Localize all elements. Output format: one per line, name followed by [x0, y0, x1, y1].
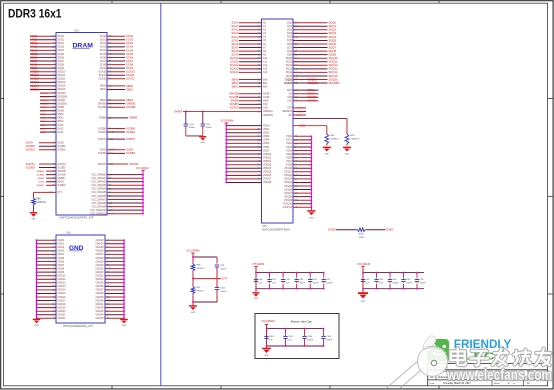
svg-text:U16: U16	[66, 232, 71, 235]
svg-text:SCA12: SCA12	[230, 63, 239, 67]
svg-text:VCC_DRAM7: VCC_DRAM7	[91, 198, 106, 201]
svg-text:VSSQ6: VSSQ6	[284, 188, 293, 191]
svg-text:SCA8: SCA8	[126, 62, 134, 66]
wire net SCK0	[107, 149, 125, 151]
wire GND pin L20	[37, 310, 57, 312]
svg-text:SBA0: SBA0	[40, 113, 46, 116]
watermark wrench head	[422, 334, 438, 352]
svg-text:CAS#: CAS#	[263, 96, 270, 99]
wire net SCK0	[39, 142, 56, 144]
svg-text:SDQ11: SDQ11	[58, 74, 66, 77]
wire net SDQ9	[293, 54, 328, 56]
watermark CJK char zi	[471, 351, 488, 365]
svg-text:VCC-DRAM: VCC-DRAM	[187, 250, 200, 253]
svg-text:SRSTB: SRSTB	[129, 162, 138, 166]
wire net SCA10	[107, 71, 125, 73]
wire VDDQ7 pin	[226, 178, 261, 180]
wire net SCSB0	[239, 103, 262, 105]
watermark CJK char shao	[514, 350, 531, 365]
svg-text:C101: C101	[269, 336, 275, 338]
IC U16 body	[56, 235, 105, 323]
svg-text:1uF: 1uF	[269, 340, 273, 342]
svg-text:SDQ13: SDQ13	[58, 81, 67, 84]
svg-text:SCKE0: SCKE0	[98, 131, 107, 134]
svg-text:SCA13: SCA13	[230, 67, 239, 71]
ground below right GND bus	[123, 318, 125, 321]
svg-text:SDQ9: SDQ9	[329, 53, 337, 57]
svg-text:SA12: SA12	[40, 127, 46, 130]
wire divider vertical top	[192, 253, 194, 262]
svg-text:SDQ8: SDQ8	[329, 49, 337, 53]
wire net SDQ12	[30, 78, 56, 80]
svg-text:GND25: GND25	[96, 246, 105, 249]
svg-text:SCA11: SCA11	[126, 73, 135, 77]
wire GND pin R13	[105, 285, 124, 287]
svg-text:A14: A14	[263, 71, 268, 74]
svg-text:SCA10: SCA10	[126, 70, 135, 74]
wire net SCSB0	[107, 128, 125, 130]
svg-text:1uF: 1uF	[272, 283, 276, 285]
svg-text:SRASB: SRASB	[126, 102, 135, 106]
wire net SA12	[40, 128, 56, 130]
ground below SVREF caps	[202, 135, 204, 138]
wire GND pin R20	[105, 310, 124, 312]
svg-text:R10: R10	[107, 269, 112, 271]
wire net SCKB0	[293, 96, 319, 98]
svg-text:SDQ3: SDQ3	[329, 31, 337, 35]
svg-text:SDQ8: SDQ8	[58, 63, 65, 66]
svg-text:SDQS1: SDQS1	[308, 77, 317, 81]
wire VSS2 pin	[293, 142, 311, 144]
svg-text:GND: GND	[34, 325, 39, 327]
wire net SCKE right of R100	[367, 229, 385, 231]
capacitor C100 100uF	[216, 286, 218, 289]
svg-text:SDQ9: SDQ9	[30, 66, 38, 70]
svg-text:R88: R88	[36, 198, 41, 200]
svg-text:SDQ7: SDQ7	[30, 59, 38, 63]
capacitor C96 100nF	[416, 273, 418, 278]
svg-text:SWEB: SWEB	[58, 177, 65, 180]
wire GND pin R21	[105, 314, 124, 316]
wire GND pin R15	[105, 292, 124, 294]
wire GND pin R14	[105, 289, 124, 291]
svg-text:SZQ0: SZQ0	[38, 182, 44, 184]
svg-text:SODT0: SODT0	[26, 162, 36, 166]
wire net SDQ6	[30, 57, 56, 59]
wire VDDQ1 pin	[226, 157, 261, 159]
svg-text:GND13: GND13	[58, 285, 67, 288]
wire net SBA0	[107, 85, 125, 87]
svg-text:SWEB: SWEB	[230, 99, 238, 103]
capacitor C93 1uF	[376, 273, 378, 278]
wire net SBA2	[107, 99, 125, 101]
wire net SDQ13	[293, 68, 328, 70]
ground below cap bank2	[362, 291, 364, 294]
watermark CJK char dian	[451, 348, 466, 365]
svg-text:VCC_DRAM11: VCC_DRAM11	[90, 213, 107, 216]
svg-text:GND: GND	[309, 217, 314, 219]
svg-text:U14: U14	[74, 29, 79, 32]
wire net SNC	[293, 114, 306, 116]
svg-text:SDQSB0: SDQSB0	[40, 96, 50, 98]
wire GND pin R2	[105, 246, 124, 248]
junction divider node	[192, 278, 194, 280]
wire VDDQ6 pin	[226, 174, 261, 176]
wire VCC_DRAM pin 0	[107, 174, 143, 176]
wire GND pin R16	[105, 296, 124, 298]
svg-text:100nF: 100nF	[326, 340, 333, 342]
wire net SCA14	[239, 71, 262, 73]
wire GND pin L18	[37, 303, 57, 305]
capacitor C94 100nF	[389, 273, 391, 278]
wire VDD4 pin	[226, 139, 261, 141]
wire net SDQ5	[293, 39, 328, 41]
svg-text:GND9: GND9	[58, 271, 65, 274]
wire VDDQ4 pin	[226, 167, 261, 169]
svg-text:VTT-DRAM: VTT-DRAM	[252, 263, 264, 266]
svg-text:SZQ0: SZQ0	[299, 125, 306, 128]
wire GND pin L14	[37, 289, 57, 291]
wire net SBA0	[239, 79, 262, 81]
svg-text:SCKB0: SCKB0	[308, 95, 317, 99]
wire net SVREF	[46, 184, 56, 186]
wire VDDQ2 pin	[226, 160, 261, 162]
wire net SDM1	[293, 89, 319, 91]
svg-text:SODT0: SODT0	[58, 163, 67, 166]
capacitor C87 1uF	[269, 273, 271, 278]
wire net SDQ4	[30, 49, 56, 51]
svg-text:100nF: 100nF	[419, 283, 426, 285]
wire GND pin L10	[37, 275, 57, 277]
svg-text:SODT0: SODT0	[297, 108, 305, 110]
wire net SRASB	[239, 93, 262, 95]
svg-text:GND: GND	[324, 153, 329, 155]
wire net SCA8	[239, 50, 262, 52]
svg-text:100nF: 100nF	[206, 127, 213, 129]
svg-text:Bottom side Cap: Bottom side Cap	[291, 320, 312, 324]
svg-text:C105: C105	[326, 336, 332, 338]
svg-text:100nF: 100nF	[326, 283, 333, 285]
wire net SBA1	[107, 88, 125, 90]
bottom side cap outline box	[255, 314, 339, 359]
wire net SCASB	[46, 174, 56, 176]
wire VDD7 pin	[226, 150, 261, 152]
svg-text:GND10: GND10	[58, 275, 67, 278]
wire net SCASB	[107, 106, 125, 108]
wire VDDQ3 pin	[226, 164, 261, 166]
svg-text:SCK0: SCK0	[100, 149, 107, 152]
svg-text:VREFDQ: VREFDQ	[263, 114, 273, 117]
svg-text:SCA0: SCA0	[126, 34, 134, 38]
ground below R99	[346, 146, 348, 149]
svg-text:SCA6: SCA6	[126, 55, 134, 59]
svg-text:SDQ10: SDQ10	[329, 56, 338, 60]
wire GND pin R0	[105, 239, 124, 241]
wire net SCKE0	[39, 149, 56, 151]
svg-text:SCA12: SCA12	[98, 78, 106, 81]
wire GND pin L2	[37, 246, 57, 248]
svg-text:SCKE0: SCKE0	[26, 148, 35, 152]
svg-text:SCK0: SCK0	[126, 148, 134, 152]
svg-text:RESET#: RESET#	[283, 110, 293, 113]
svg-text:SBA2: SBA2	[231, 84, 239, 88]
logo face dots	[443, 345, 446, 348]
wire net SCA13	[239, 68, 262, 70]
svg-text:1uF: 1uF	[365, 283, 369, 285]
svg-text:SBA1: SBA1	[126, 87, 134, 91]
wire net SCA9	[107, 67, 125, 69]
svg-text:SBA0: SBA0	[231, 77, 239, 81]
svg-text:GND: GND	[200, 142, 205, 144]
resistor R86 2R4/1%	[192, 262, 194, 264]
wire cap branch mid	[216, 268, 218, 288]
svg-text:SDQ2: SDQ2	[329, 28, 337, 32]
svg-text:VCC_DRAM3: VCC_DRAM3	[91, 184, 106, 187]
junction on SVREF at C98	[202, 111, 204, 113]
watermark CJK char you	[536, 349, 551, 366]
svg-text:CKE: CKE	[287, 100, 292, 103]
svg-text:VTT: VTT	[58, 191, 63, 194]
svg-text:VSS7: VSS7	[286, 160, 293, 163]
resistor R100 100R	[356, 229, 358, 231]
wire VSS7 pin	[293, 160, 311, 162]
wire VSSQ8 pin	[293, 196, 311, 198]
svg-text:GND29: GND29	[96, 260, 105, 263]
wire VDDQ5 pin	[226, 171, 261, 173]
wire GND pin R3	[105, 250, 124, 252]
wire net SCKE0	[293, 100, 319, 102]
wire VCC_DRAM pin 4	[107, 188, 143, 190]
wire GND pin R17	[105, 300, 124, 302]
svg-text:100uF: 100uF	[220, 291, 227, 293]
wire GND pin L7	[37, 264, 57, 266]
svg-text:VCC_DRAM0: VCC_DRAM0	[91, 173, 106, 176]
wire net SDQ6	[293, 43, 328, 45]
wire VCC_DRAM pin 8	[107, 202, 143, 204]
wire net SODT0	[293, 107, 306, 109]
wire VSS8 pin	[293, 164, 311, 166]
svg-text:DQ7: DQ7	[287, 46, 293, 49]
svg-text:SCK0: SCK0	[308, 92, 315, 96]
wire net SDQ7	[30, 60, 56, 62]
wire ZQ to R98	[293, 125, 327, 127]
svg-text:SCA11: SCA11	[99, 74, 107, 77]
GND bus right of U16	[123, 240, 125, 318]
svg-text:SDQ14: SDQ14	[30, 84, 39, 88]
svg-text:VDDQ5: VDDQ5	[263, 171, 272, 174]
svg-text:SCA9: SCA9	[231, 53, 239, 57]
svg-text:GND0: GND0	[58, 239, 65, 242]
svg-text:SA10: SA10	[40, 124, 46, 127]
svg-text:1uF: 1uF	[379, 283, 383, 285]
svg-text:SCA1: SCA1	[100, 39, 107, 42]
wire GND pin L3	[37, 250, 57, 252]
svg-text:100uF: 100uF	[220, 268, 227, 270]
wire VSS4 pin	[293, 150, 311, 152]
capacitor C101 1uF	[266, 335, 268, 337]
wire VDDQ0 pin	[226, 153, 261, 155]
wire GND pin L11	[37, 278, 57, 280]
svg-text:SDQ11: SDQ11	[30, 73, 39, 77]
wire net SRASB	[46, 170, 56, 172]
wire cap branch bottom	[216, 290, 218, 302]
watermark CJK char fa	[493, 349, 508, 366]
svg-text:2R4/1%: 2R4/1%	[197, 291, 205, 293]
wire VDD1 pin	[226, 128, 261, 130]
wire GND pin R5	[105, 257, 124, 259]
svg-text:SDQ12: SDQ12	[30, 77, 39, 81]
svg-text:VDDQ8: VDDQ8	[263, 181, 272, 184]
wire net SCKE0	[239, 107, 262, 109]
watermark circle arc detail	[420, 348, 444, 352]
svg-text:SDQ10: SDQ10	[30, 70, 39, 74]
wire net SCA7	[107, 60, 125, 62]
capacitor C104 100nF	[304, 329, 306, 335]
svg-text:SRSTB: SRSTB	[98, 163, 106, 166]
wire divider bottom	[192, 295, 194, 305]
wire net SBA2	[239, 86, 262, 88]
wire net SDQ9	[30, 67, 56, 69]
wire net SDQ4	[293, 36, 328, 38]
wire GND pin R9	[105, 271, 124, 273]
svg-text:SDQ15: SDQ15	[329, 74, 338, 78]
svg-text:SCA3: SCA3	[100, 46, 107, 49]
svg-text:U15: U15	[262, 225, 267, 228]
capacitor C91 100nF	[323, 273, 325, 278]
svg-text:SDQ3: SDQ3	[58, 46, 65, 49]
svg-text:240R/1%: 240R/1%	[330, 139, 339, 141]
wire net SDQ14	[30, 85, 56, 87]
wire VSSQ1 pin	[293, 171, 311, 173]
wire net SWEB	[107, 117, 128, 119]
svg-text:GND6: GND6	[58, 260, 65, 263]
svg-text:SCA7: SCA7	[231, 45, 239, 49]
svg-text:SVTT: SVTT	[222, 278, 229, 281]
svg-text:VDDQ0: VDDQ0	[263, 153, 272, 156]
svg-text:SBA1: SBA1	[231, 81, 239, 85]
wire GND pin L5	[37, 257, 57, 259]
svg-text:SCA3: SCA3	[231, 31, 239, 35]
wire VSSQ6 pin	[293, 189, 311, 191]
svg-text:SBA2: SBA2	[100, 99, 107, 102]
wire net SCA5	[239, 39, 262, 41]
svg-text:SDQSB1: SDQSB1	[40, 104, 50, 106]
GND bus right of U15	[310, 136, 312, 210]
svg-text:SDQ2: SDQ2	[30, 41, 38, 45]
wire net SDQSB1	[40, 103, 56, 105]
svg-text:H5TQ4G63AFR_DT: H5TQ4G63AFR_DT	[63, 325, 94, 328]
svg-text:SVREF: SVREF	[174, 110, 183, 113]
svg-text:DDR3 16x1: DDR3 16x1	[8, 7, 62, 21]
capacitor C99 100uF	[216, 257, 218, 264]
wire net SBA2	[40, 120, 56, 122]
wire VSSQ11 pin	[293, 206, 311, 208]
svg-text:SA14: SA14	[40, 131, 46, 134]
svg-text:C104: C104	[307, 336, 313, 338]
wire net SWEB	[46, 177, 56, 179]
svg-text:DQ5: DQ5	[287, 39, 293, 42]
svg-text:GND23: GND23	[96, 239, 105, 242]
junction on SVREF at C103	[185, 111, 187, 113]
wire GND pin L22	[37, 317, 57, 319]
svg-text:GND: GND	[31, 219, 36, 221]
svg-text:VCC_DRAM1: VCC_DRAM1	[91, 177, 106, 180]
wire net SCA0	[107, 35, 125, 37]
svg-text:SCA2: SCA2	[231, 28, 239, 32]
svg-text:SCASB: SCASB	[98, 106, 107, 109]
svg-text:GND15: GND15	[58, 292, 67, 295]
wire VSSQ3 pin	[293, 178, 311, 180]
cap bank2 rails	[362, 266, 364, 292]
capacitor C89 100nF	[296, 273, 298, 278]
wire net SDM1	[40, 110, 56, 112]
wire net SDQSB0	[293, 82, 328, 84]
wire net SA10	[40, 124, 56, 126]
svg-text:SCKE0: SCKE0	[229, 106, 238, 110]
svg-text:SDQ0: SDQ0	[30, 34, 38, 38]
wire net SWEB	[239, 100, 262, 102]
svg-text:SA14: SA14	[58, 131, 65, 134]
wire to VTT label	[193, 278, 221, 280]
wire net SDQ8	[30, 64, 56, 66]
wire VCC_DRAM pin 6	[107, 195, 143, 197]
wire net SCA11	[107, 74, 125, 76]
wire net SDQ5	[30, 53, 56, 55]
svg-text:SDQ14: SDQ14	[329, 70, 338, 74]
svg-text:SCSB0: SCSB0	[26, 165, 35, 169]
svg-text:SDQ1: SDQ1	[329, 24, 337, 28]
wire VDD0 pin	[226, 125, 261, 127]
wire VCC_DRAM pin 7	[107, 199, 143, 201]
svg-text:SDQ0: SDQ0	[329, 21, 337, 25]
svg-text:VCC-DRAM: VCC-DRAM	[221, 120, 234, 123]
svg-text:1uF: 1uF	[258, 283, 262, 285]
svg-text:GND: GND	[264, 355, 269, 357]
wire net SCA3	[107, 46, 125, 48]
wire net SBA1	[40, 117, 56, 119]
wire VSSQ5 pin	[293, 185, 311, 187]
logo green square	[427, 339, 449, 362]
watermark screwdriver lines	[386, 352, 428, 389]
wire VCC_DRAM pin 1	[107, 177, 143, 179]
capacitor C86 1uF	[255, 278, 257, 279]
svg-text:C103: C103	[189, 124, 195, 126]
wire net SCA11	[239, 61, 262, 63]
svg-text:GND17: GND17	[58, 299, 67, 302]
svg-text:SDQ5: SDQ5	[30, 52, 38, 56]
wire net SDQ10	[293, 57, 328, 59]
IC U14 body	[56, 33, 107, 216]
wire VCC_DRAM pin 9	[107, 206, 143, 208]
svg-text:GND: GND	[345, 153, 350, 155]
svg-text:GND40: GND40	[96, 299, 105, 302]
wire GND pin R8	[105, 268, 124, 270]
svg-text:VTT: VTT	[48, 192, 53, 194]
wire net SDQ15	[30, 88, 56, 90]
svg-text:SCA0: SCA0	[231, 21, 239, 25]
wire net SDQ10	[30, 71, 56, 73]
wire GND pin R4	[105, 253, 124, 255]
svg-text:SDQSB1: SDQSB1	[308, 81, 319, 85]
wire VDDQ8 pin	[226, 181, 261, 183]
svg-text:VSSQ4: VSSQ4	[284, 181, 293, 184]
wire net SCA2	[239, 29, 262, 31]
svg-text:SDQ6: SDQ6	[329, 42, 337, 46]
wire GND pin L13	[37, 285, 57, 287]
svg-text:SDQ11: SDQ11	[329, 60, 338, 64]
svg-text:VREFCA: VREFCA	[263, 110, 273, 113]
wire net SZQ0	[46, 181, 56, 183]
